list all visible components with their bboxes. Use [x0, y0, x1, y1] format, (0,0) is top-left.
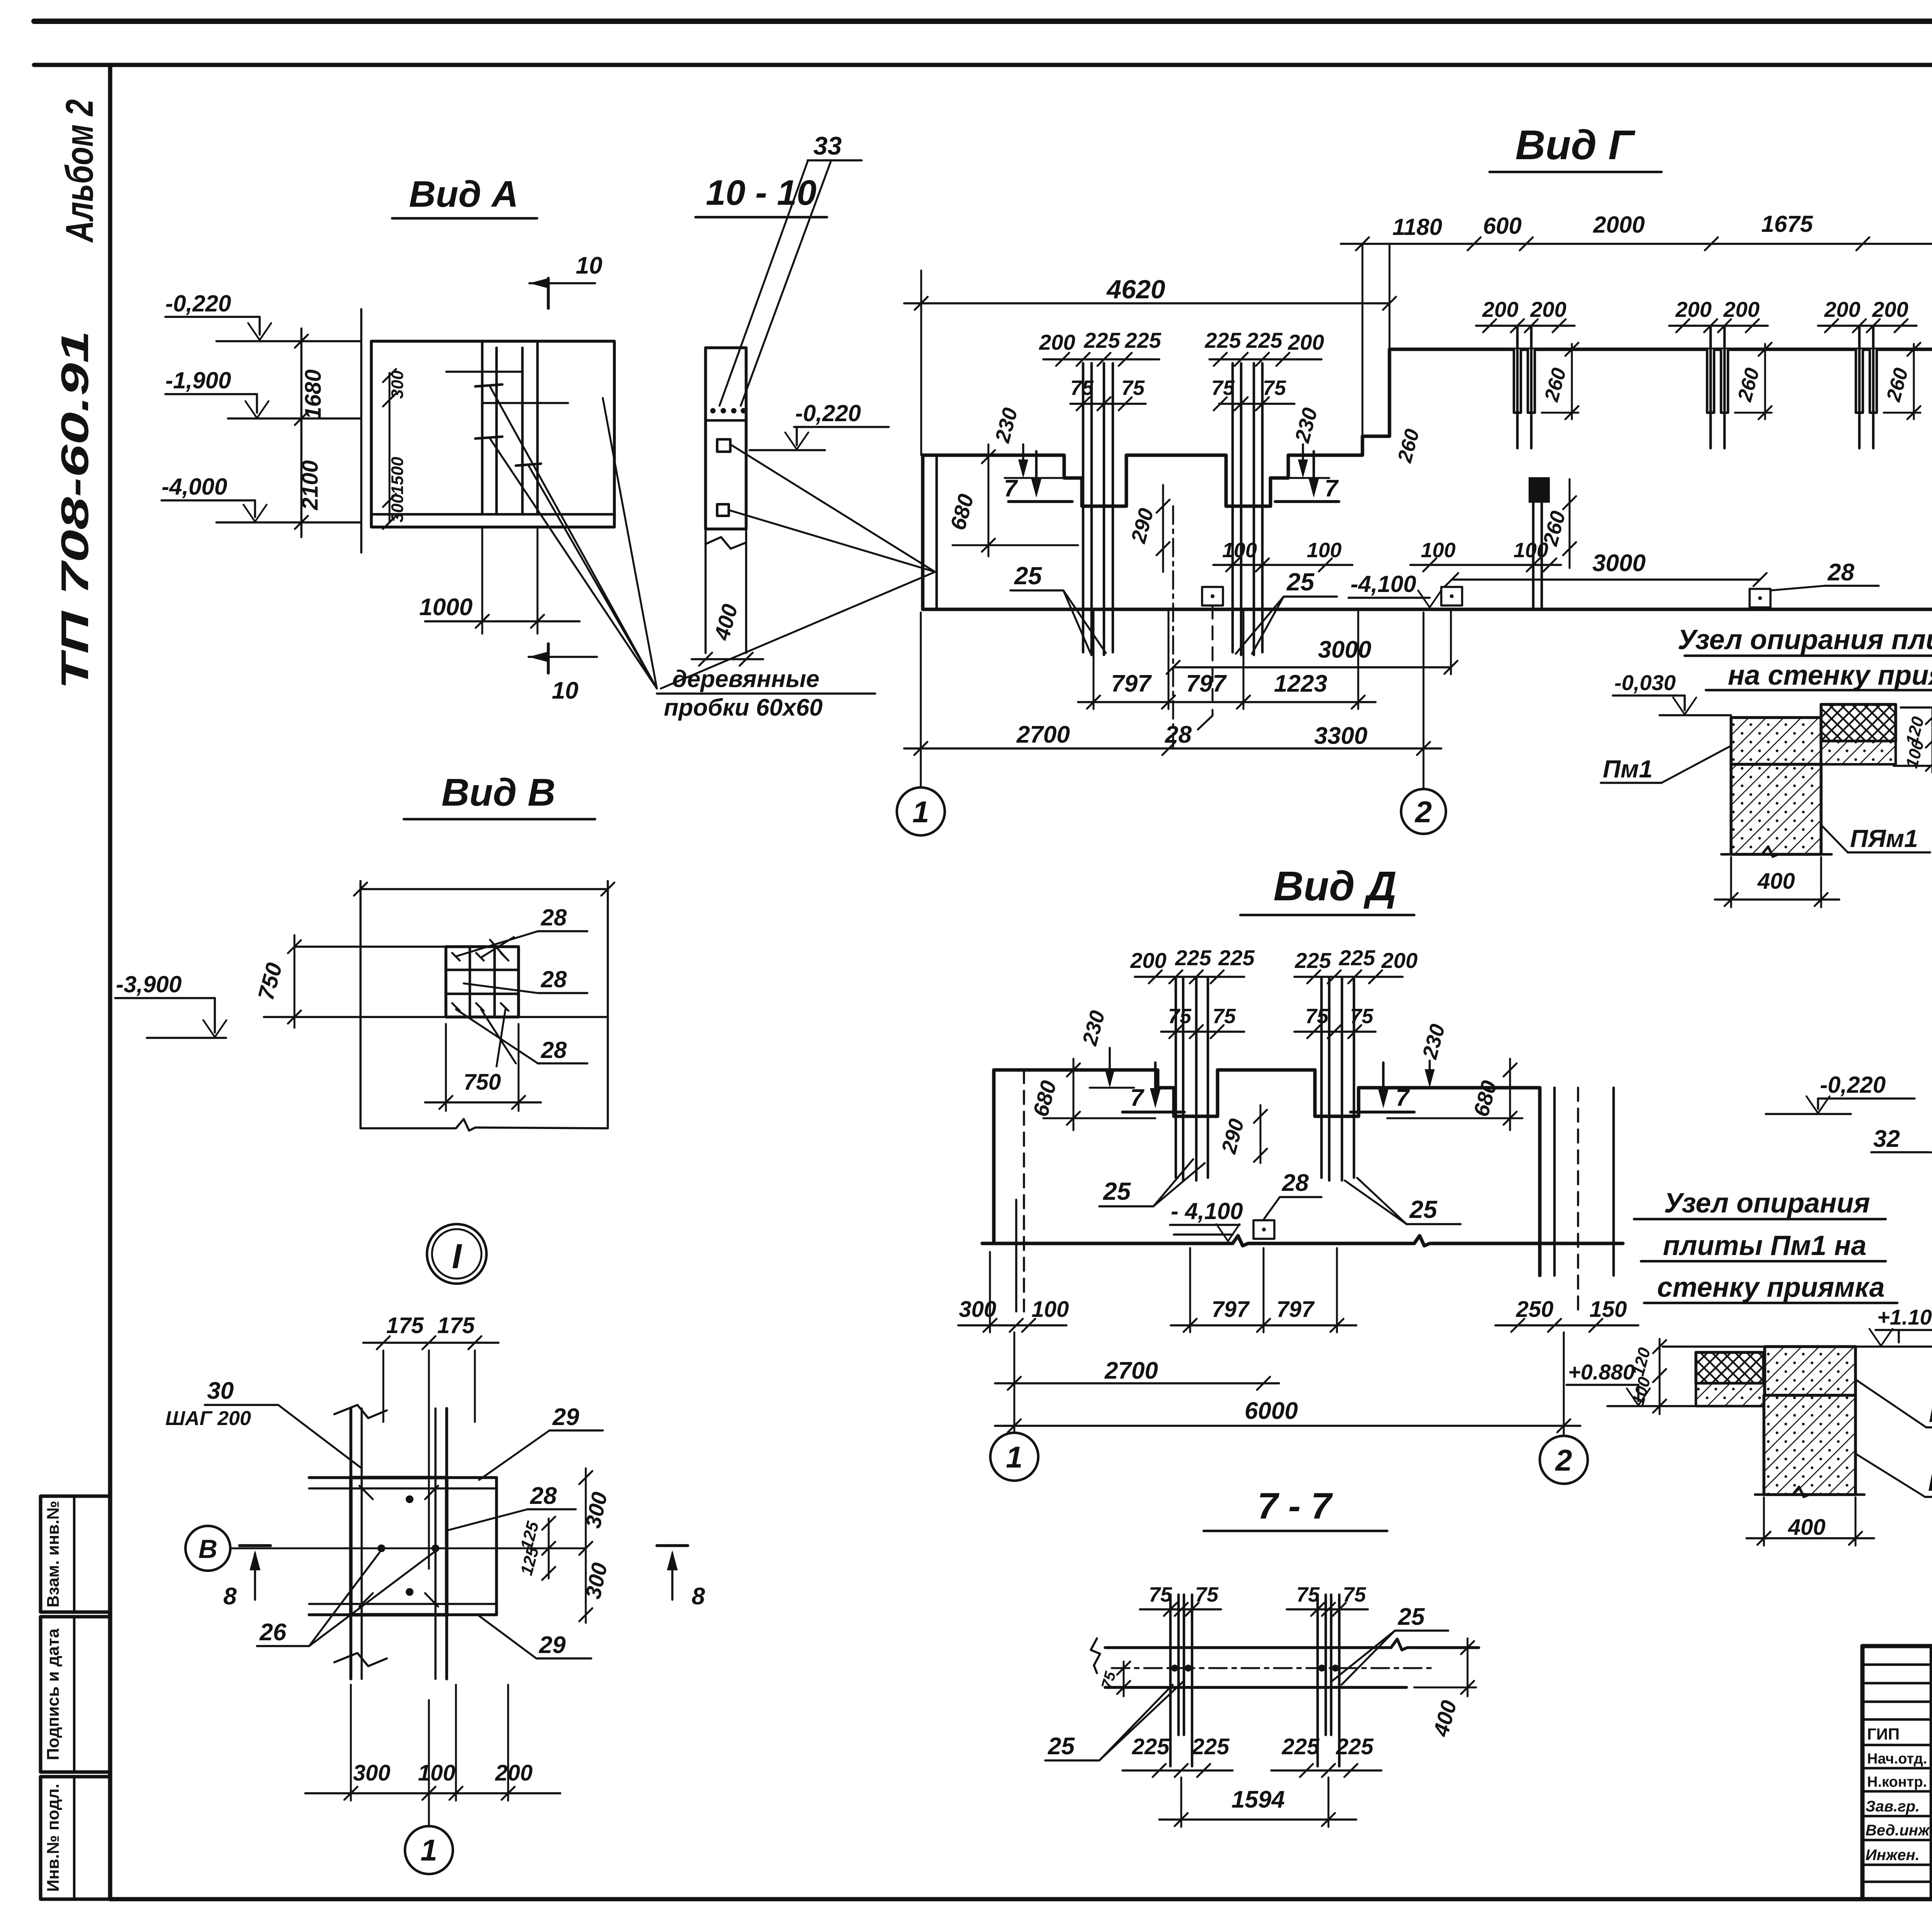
view B column section with rebar grid	[446, 947, 519, 1017]
svg-text:7: 7	[1325, 475, 1339, 502]
svg-text:3000: 3000	[1318, 636, 1371, 663]
svg-text:225: 225	[1338, 946, 1375, 970]
top dimension chain 1180 600 2000 1675 400	[1341, 211, 1932, 436]
page top outer border line	[34, 19, 1932, 24]
svg-text:797: 797	[1111, 670, 1152, 697]
rotated dim 75 left end (7-7)	[1098, 1662, 1130, 1696]
label 29 (plan top right)	[479, 1404, 603, 1480]
view A inner channel verticals	[446, 341, 568, 514]
svg-text:6000: 6000	[1245, 1398, 1298, 1424]
svg-text:стенку приямка: стенку приямка	[1657, 1272, 1884, 1303]
svg-text:225: 225	[1124, 328, 1161, 352]
elevation -4,000	[162, 474, 361, 522]
svg-text:29: 29	[552, 1404, 579, 1430]
svg-text:200: 200	[1530, 297, 1566, 321]
svg-text:28: 28	[541, 1037, 567, 1063]
svg-text:200: 200	[1872, 297, 1908, 321]
label 28 with anchor square (view Д)	[1253, 1170, 1321, 1239]
svg-text:1594: 1594	[1231, 1786, 1285, 1813]
axis 1 (view Д)	[990, 1332, 1038, 1481]
svg-text:+1.100: +1.100	[1877, 1305, 1932, 1329]
label 25 with leaders (view Д right)	[1345, 1178, 1461, 1224]
signature table rows	[1862, 1663, 1932, 1666]
svg-text:200: 200	[1824, 297, 1860, 321]
anchor square S3 with label 28	[1750, 559, 1879, 607]
rotated dims 300 1500 300 inside view A	[383, 369, 407, 529]
wooden plugs note text	[657, 666, 875, 721]
svg-text:750: 750	[464, 1070, 501, 1095]
label 30 шаг 200	[165, 1378, 362, 1468]
crosshatched bearing pad	[1821, 704, 1896, 741]
svg-text:2: 2	[1554, 1443, 1572, 1477]
svg-text:-0,220: -0,220	[165, 291, 231, 316]
rotated dim 680 left	[946, 444, 1078, 556]
section mark 8 (right)	[657, 1546, 705, 1610]
svg-text:Пм1: Пм1	[1929, 1400, 1932, 1427]
rotated dim 230 with arrow (view Д right)	[1410, 1022, 1454, 1088]
svg-text:-0,220: -0,220	[795, 400, 861, 426]
svg-text:2000: 2000	[1593, 212, 1645, 238]
svg-text:10: 10	[576, 252, 602, 279]
label 25 (7-7 right)	[1332, 1604, 1448, 1685]
svg-text:75: 75	[1296, 1583, 1320, 1606]
svg-text:Альбом 2: Альбом 2	[58, 99, 101, 243]
svg-text:797: 797	[1277, 1297, 1315, 1322]
svg-text:1: 1	[1006, 1440, 1022, 1474]
svg-text:Взам. инв.№: Взам. инв.№	[44, 1501, 63, 1607]
svg-text:200: 200	[495, 1760, 533, 1786]
rebar bundle 25 right (view Д)	[1294, 946, 1418, 1180]
vertical dim line 1680 / 2100	[295, 328, 326, 537]
svg-text:25: 25	[1286, 568, 1315, 596]
dim 750 bottom	[425, 1024, 541, 1111]
svg-text:200: 200	[1287, 330, 1324, 354]
svg-text:ПЯм1: ПЯм1	[1928, 1468, 1932, 1496]
svg-text:1223: 1223	[1274, 670, 1327, 697]
axis 1 of view Г	[897, 612, 945, 835]
svg-text:1000: 1000	[419, 594, 473, 621]
svg-text:деревянные: деревянные	[672, 666, 820, 692]
slab Пм1 hatched block	[1731, 718, 1821, 764]
dims 2700 3300	[904, 721, 1441, 755]
svg-text:200: 200	[1381, 948, 1417, 973]
svg-text:ГИП: ГИП	[1867, 1725, 1900, 1743]
10-10 strip outline	[706, 348, 746, 653]
pit wall ПЯм1 hatched	[1731, 764, 1821, 854]
svg-text:75: 75	[1213, 1005, 1236, 1028]
svg-text:В: В	[198, 1534, 217, 1564]
right side dims 125 125 / 300 300 (plan)	[517, 1468, 612, 1623]
concrete strip under pad	[1821, 741, 1896, 764]
7-7 rebar bundle 1	[1170, 1595, 1192, 1766]
frame bottom border	[110, 1897, 1932, 1901]
svg-text:400: 400	[1757, 869, 1795, 894]
rotated dim 400 right (7-7)	[1414, 1638, 1476, 1739]
svg-text:8: 8	[692, 1583, 705, 1610]
svg-text:225: 225	[1204, 328, 1241, 352]
dims 75 75 (7-7 bundle 2)	[1287, 1583, 1368, 1616]
axis 2 (view Д)	[1540, 1332, 1588, 1484]
beam profile view Г	[923, 349, 1932, 612]
svg-text:1180: 1180	[1392, 214, 1442, 240]
centre dash-dot axis between notches	[1172, 506, 1174, 748]
10-10 title underline	[696, 216, 827, 219]
svg-text:-4,000: -4,000	[162, 474, 227, 500]
vertical wall strip (plan)	[334, 1405, 447, 1679]
svg-text:75: 75	[1168, 1005, 1192, 1028]
dim 4620	[904, 270, 1396, 455]
svg-text:I: I	[452, 1237, 462, 1276]
section mark 7 left	[1004, 451, 1072, 502]
svg-text:28: 28	[1827, 559, 1854, 586]
slot pair C in beam top	[1818, 297, 1920, 448]
svg-text:30: 30	[207, 1378, 234, 1404]
rotated dim 290	[1127, 485, 1170, 572]
left margin stamp box Подпись и дата	[41, 1617, 110, 1772]
svg-text:Вид Г: Вид Г	[1515, 121, 1636, 168]
label ПЯм1 (node 1)	[1821, 825, 1930, 852]
dims 250 150 (view Д bottom right)	[1495, 1297, 1638, 1332]
svg-text:225: 225	[1246, 328, 1282, 352]
svg-text:Инв.№ подл.: Инв.№ подл.	[44, 1784, 63, 1892]
7-7 rebar bundle 2	[1318, 1595, 1339, 1766]
svg-text:Инжен.: Инжен.	[1866, 1847, 1920, 1864]
view B horizontal guide lines	[264, 947, 608, 1017]
svg-text:32: 32	[1873, 1126, 1900, 1152]
svg-text:100: 100	[1307, 539, 1342, 562]
section mark 8 (left)	[223, 1546, 270, 1610]
svg-text:+0.880: +0.880	[1568, 1360, 1635, 1384]
svg-text:1675: 1675	[1761, 211, 1813, 237]
rebar bundle 25 (right)	[1204, 328, 1324, 655]
svg-text:-0,030: -0,030	[1614, 670, 1676, 695]
dim 2700 (view Д)	[995, 1357, 1279, 1390]
elevation -4,100 on view Г	[1349, 571, 1441, 607]
node 2 detail	[1566, 1305, 1932, 1546]
svg-text:пробки 60х60: пробки 60х60	[664, 694, 823, 721]
svg-text:Вид В: Вид В	[441, 771, 555, 814]
svg-text:8: 8	[223, 1583, 237, 1610]
svg-text:200: 200	[1723, 297, 1759, 321]
slab Пм1 hatched (node 2)	[1765, 1347, 1855, 1395]
label 25 right with leaders	[1236, 568, 1337, 654]
anchor dots row in 10-10	[710, 408, 746, 413]
section mark 7 right	[1275, 451, 1339, 502]
svg-text:175: 175	[437, 1313, 475, 1338]
svg-text:-3,900: -3,900	[116, 971, 182, 997]
svg-text:200: 200	[1130, 948, 1166, 973]
svg-text:225: 225	[1218, 946, 1255, 970]
view A wall outline	[361, 309, 614, 553]
svg-text:ТП 708-60.91: ТП 708-60.91	[53, 330, 97, 690]
svg-text:ПЯм1: ПЯм1	[1850, 825, 1918, 852]
svg-text:28: 28	[1282, 1170, 1309, 1196]
svg-text:1500: 1500	[388, 457, 407, 495]
dim 3000 between anchor squares	[1445, 550, 1767, 586]
svg-text:10: 10	[552, 677, 578, 704]
svg-text:ШАГ 200: ШАГ 200	[165, 1407, 251, 1430]
strip left under pad (node 2)	[1696, 1383, 1764, 1406]
svg-text:100: 100	[1514, 539, 1548, 562]
slot pair B in beam top	[1669, 297, 1772, 448]
left margin stamp box Взам. инв. №	[41, 1496, 110, 1612]
section mark 7 (view Д left)	[1122, 1063, 1184, 1112]
labels 28 with leaders (view B)	[456, 905, 587, 957]
wooden plug marks in view A	[475, 384, 541, 466]
svg-text:250: 250	[1516, 1297, 1554, 1322]
svg-text:25: 25	[1103, 1177, 1131, 1205]
steel embed plate (solid)	[1529, 477, 1576, 609]
svg-text:797: 797	[1212, 1297, 1250, 1322]
dims 100 100 100 100 under beam notches	[1213, 539, 1561, 571]
dim 6000 (view Д)	[995, 1398, 1580, 1432]
rebar bundle 25 (left)	[1039, 328, 1161, 655]
slot pair A in beam top	[1476, 297, 1578, 448]
svg-text:225: 225	[1192, 1734, 1230, 1759]
svg-text:-0,220: -0,220	[1820, 1072, 1886, 1098]
rebar bundle 25 left (view Д)	[1130, 946, 1255, 1180]
elevation -0,220 (node 1)	[1894, 766, 1932, 818]
base line with break (node 2)	[1755, 1487, 1864, 1497]
svg-text:200: 200	[1039, 330, 1075, 354]
svg-text:на стенку приямка: на стенку приямка	[1728, 660, 1932, 691]
view A title underline	[392, 217, 537, 220]
section mark 7 (view Д right)	[1350, 1063, 1414, 1112]
svg-text:225: 225	[1282, 1734, 1320, 1759]
svg-text:7: 7	[1130, 1085, 1145, 1111]
rotated dim 290 (view Д)	[1217, 1105, 1267, 1163]
bottom dims 300 100 200 (plan)	[305, 1685, 560, 1801]
frame left border	[108, 65, 112, 1899]
label 28 (plan)	[448, 1483, 576, 1530]
svg-text:7: 7	[1396, 1085, 1410, 1111]
svg-text:100: 100	[1421, 539, 1456, 562]
svg-text:28: 28	[541, 905, 567, 930]
rotated dim 230 right with arrow	[1283, 405, 1329, 478]
crosshatched pad (node 2)	[1696, 1352, 1764, 1383]
svg-text:26: 26	[259, 1619, 286, 1646]
lower dim 3000	[1167, 611, 1458, 674]
wooden plug squares in 10-10	[661, 439, 935, 689]
svg-text:300: 300	[388, 370, 407, 399]
elevation -0,220 at 10-10	[750, 400, 889, 450]
rotated dim 230 left with arrow	[991, 405, 1066, 478]
svg-text:150: 150	[1590, 1297, 1627, 1322]
label 25 left with leaders	[1010, 562, 1106, 653]
axis 1 circle (plan)	[405, 1700, 453, 1874]
svg-text:Узел опирания плиты Пм1: Узел опирания плиты Пм1	[1678, 624, 1932, 655]
elevation -0,030	[1613, 670, 1731, 715]
svg-text:2700: 2700	[1104, 1357, 1158, 1384]
svg-text:1680: 1680	[301, 369, 326, 419]
title block outer	[1862, 1646, 1932, 1899]
dims 797 797 1223	[1078, 611, 1376, 709]
section mark 10 (top)	[529, 252, 602, 308]
svg-text:10 - 10: 10 - 10	[706, 173, 816, 213]
svg-text:7: 7	[1004, 475, 1018, 502]
svg-text:7 - 7: 7 - 7	[1257, 1485, 1333, 1527]
column core (plan)	[351, 1478, 447, 1615]
svg-text:1: 1	[912, 795, 929, 829]
svg-text:25: 25	[1014, 562, 1043, 590]
svg-text:225: 225	[1132, 1734, 1170, 1759]
rotated dims 100 120 (node 2)	[1659, 1339, 1661, 1414]
svg-text:75: 75	[1305, 1005, 1329, 1028]
svg-text:3000: 3000	[1592, 550, 1646, 577]
dims 75 75 (7-7 bundle 1)	[1140, 1583, 1221, 1616]
rotated dim 680 (view Д right)	[1387, 1059, 1522, 1130]
label 25 with leaders (view Д left)	[1099, 1159, 1205, 1206]
svg-text:Н.контр.: Н.контр.	[1867, 1774, 1927, 1790]
elevation -3,900	[115, 971, 226, 1038]
axis 2 of view Г	[1401, 612, 1446, 834]
left margin stamp box Инв.№ подл.	[41, 1777, 110, 1899]
label 29 (plan bottom)	[479, 1616, 591, 1658]
svg-text:Вид Д: Вид Д	[1274, 862, 1397, 909]
svg-text:- 4,100: - 4,100	[1171, 1198, 1243, 1224]
label 25 (7-7 left)	[1045, 1682, 1183, 1760]
svg-text:200: 200	[1482, 297, 1518, 321]
elevation -1,900	[165, 367, 361, 418]
svg-text:3300: 3300	[1314, 723, 1367, 749]
svg-text:75: 75	[1350, 1005, 1374, 1028]
rotated dim 750 left	[253, 935, 301, 1028]
dim 1000 below view A	[419, 527, 580, 634]
svg-text:600: 600	[1483, 213, 1522, 239]
svg-text:75: 75	[1211, 376, 1235, 400]
svg-text:28: 28	[541, 966, 567, 992]
svg-text:797: 797	[1186, 670, 1227, 697]
svg-text:плиты Пм1 на: плиты Пм1 на	[1663, 1230, 1867, 1261]
dims 225 225 (7-7 bundle 2)	[1271, 1734, 1381, 1777]
svg-text:Вид А: Вид А	[409, 173, 518, 215]
view Г title underline	[1490, 171, 1662, 173]
rotated dim 400 on 10-10	[692, 602, 763, 666]
dims 300 100 (view Д bottom left)	[958, 1252, 1069, 1332]
svg-text:29: 29	[539, 1632, 566, 1658]
svg-text:1: 1	[420, 1833, 437, 1867]
dims 175 175 above plan	[363, 1313, 498, 1569]
svg-text:300: 300	[353, 1760, 391, 1786]
svg-text:75: 75	[1263, 376, 1286, 400]
svg-text:75: 75	[1070, 376, 1094, 400]
svg-text:Нач.отд.: Нач.отд.	[1867, 1751, 1927, 1767]
svg-text:Подпись и дата: Подпись и дата	[44, 1628, 63, 1760]
node circle I	[427, 1224, 486, 1284]
anchor square S1 with dashed drop and label 28	[1165, 587, 1223, 748]
svg-text:33: 33	[813, 131, 842, 160]
7-7 bar outline	[1091, 1638, 1479, 1687]
elevation -0,220 (view Д right)	[1766, 1072, 1915, 1114]
dims 225 225 (7-7 bundle 1)	[1122, 1734, 1233, 1777]
label Пм1 (node 1)	[1601, 746, 1731, 783]
elevation -0,220	[165, 291, 361, 341]
svg-text:Узел опирания: Узел опирания	[1664, 1188, 1870, 1219]
elevation -4,100 (view Д)	[1170, 1198, 1243, 1241]
anchor square S2	[1441, 587, 1462, 605]
svg-text:225: 225	[1175, 946, 1211, 970]
svg-text:200: 200	[1675, 297, 1711, 321]
svg-text:75: 75	[1149, 1583, 1172, 1606]
svg-text:Вед.инж.: Вед.инж.	[1866, 1822, 1932, 1839]
svg-text:400: 400	[1788, 1515, 1826, 1540]
horizontal wall strip (plan)	[309, 1478, 497, 1615]
view Д wall profile	[982, 1070, 1623, 1311]
svg-text:Зав.гр.: Зав.гр.	[1866, 1798, 1920, 1815]
label 26 with leaders (plan)	[257, 1553, 434, 1646]
rotated dim 680 (view Д left)	[1028, 1059, 1155, 1130]
svg-text:225: 225	[1083, 328, 1120, 352]
axis В circle with line	[185, 1526, 586, 1571]
dim 1594 (7-7)	[1159, 1777, 1356, 1827]
dim 400 under node 1	[1715, 857, 1839, 907]
svg-text:25: 25	[1409, 1196, 1438, 1223]
svg-text:225: 225	[1294, 948, 1331, 973]
svg-text:300: 300	[388, 494, 407, 522]
svg-text:2: 2	[1414, 795, 1432, 829]
vertical dims 120 100 right of pad	[1902, 709, 1932, 773]
svg-text:2100: 2100	[298, 460, 323, 510]
svg-text:75: 75	[1121, 376, 1145, 400]
svg-text:-4,100: -4,100	[1350, 571, 1416, 597]
svg-text:28: 28	[530, 1483, 557, 1509]
svg-text:4620: 4620	[1106, 275, 1165, 304]
svg-text:175: 175	[386, 1313, 424, 1338]
node 1 base line with break	[1721, 847, 1832, 857]
leader fan to wooden plugs text	[490, 386, 657, 689]
svg-text:-1,900: -1,900	[165, 367, 231, 393]
svg-text:2700: 2700	[1016, 721, 1070, 748]
dims 797 797 (view Д)	[1171, 1248, 1356, 1332]
svg-text:28: 28	[1165, 721, 1192, 748]
view B outer dim frame	[354, 881, 614, 1131]
svg-text:25: 25	[1398, 1604, 1425, 1630]
label 33 with leaders	[719, 131, 862, 406]
page top inner band line / frame top	[34, 63, 1932, 67]
pit wall ПЯм1 (node 2)	[1764, 1395, 1855, 1495]
elevation 0.000	[1901, 663, 1932, 707]
svg-text:Пм1: Пм1	[1603, 755, 1653, 783]
svg-text:100: 100	[418, 1760, 456, 1786]
rotated dim 230 with arrow (view Д left)	[1078, 1008, 1134, 1088]
svg-text:100: 100	[1032, 1297, 1069, 1322]
svg-text:225: 225	[1336, 1734, 1374, 1759]
svg-text:25: 25	[1048, 1733, 1075, 1760]
section mark 10 (bottom)	[529, 644, 597, 704]
